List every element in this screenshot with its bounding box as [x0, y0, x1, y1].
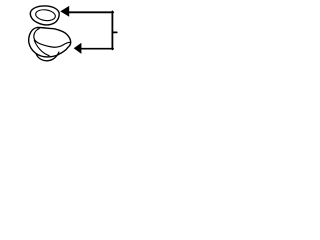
bracket middle tick: [112, 31, 116, 33]
interior diagonal: [34, 41, 49, 56]
arrow 1 head: [60, 6, 69, 17]
bracket vertical: [111, 11, 113, 49]
seat ring outer: [30, 6, 59, 25]
arrow 2 head: [74, 43, 82, 54]
foot arc: [36, 52, 59, 61]
bowl opening: [34, 29, 70, 48]
bowl outer silhouette: [29, 27, 71, 56]
seat ring inner: [35, 9, 56, 22]
arrow 1 line: [69, 11, 113, 13]
arrow 2 line: [81, 48, 113, 50]
